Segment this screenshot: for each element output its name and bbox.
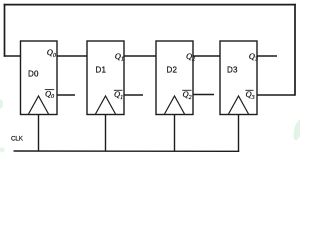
wire: Qbar3 feedback horizontal [257, 94, 296, 96]
wire: feedback left vertical [4, 4, 6, 57]
svg-text:Q1: Q1 [115, 51, 124, 63]
svg-text:Q0: Q0 [45, 88, 54, 100]
wire: CLK bus [14, 150, 240, 152]
label Qbar0 overline [45, 89, 54, 91]
svg-text:D3: D3 [227, 65, 238, 74]
wire: Q0 to D1 [57, 55, 87, 57]
flip-flop D1 box [87, 41, 124, 115]
wire: D3 clock drop [238, 114, 240, 152]
wire: D2 clock drop [174, 114, 176, 151]
svg-text:D1: D1 [96, 65, 107, 74]
wire: Qbar1 stub [124, 94, 143, 96]
flip-flop D0 clock triangle [29, 96, 49, 114]
wire: Q3 output stub [257, 55, 277, 57]
watermark smudge right [292, 119, 304, 141]
wire: Q2 to D3 [193, 55, 220, 57]
label Qbar3 overline [245, 89, 253, 91]
wire: feedback right vertical [294, 4, 296, 96]
wire: D0 clock drop [38, 114, 40, 151]
label Qbar1 overline [114, 89, 123, 91]
wire: Qbar2 stub [193, 94, 214, 96]
svg-text:Q1: Q1 [114, 89, 123, 101]
wire: Q1 to D2 [124, 55, 156, 57]
svg-text:Q3: Q3 [246, 89, 255, 101]
wire: feedback top horizontal [4, 4, 296, 6]
flip-flop D3 clock triangle [229, 96, 249, 114]
wire: Qbar0 stub [57, 94, 75, 96]
watermark smudge bottom-left [0, 148, 5, 153]
svg-text:CLK: CLK [11, 135, 24, 142]
watermark smudge left [0, 100, 3, 109]
flip-flop D0 box [21, 41, 58, 115]
label Qbar2 overline [182, 89, 191, 91]
svg-text:D0: D0 [28, 70, 39, 79]
flip-flop D1 clock triangle [96, 96, 116, 114]
svg-text:Q0: Q0 [47, 47, 56, 59]
wire: D1 clock drop [105, 114, 107, 151]
wire: D0 input [4, 55, 21, 57]
flip-flop D2 box [156, 41, 193, 115]
svg-text:Q2: Q2 [183, 89, 192, 101]
flip-flop D2 clock triangle [165, 96, 185, 114]
svg-text:D2: D2 [167, 65, 178, 74]
flip-flop D3 box [220, 41, 257, 115]
